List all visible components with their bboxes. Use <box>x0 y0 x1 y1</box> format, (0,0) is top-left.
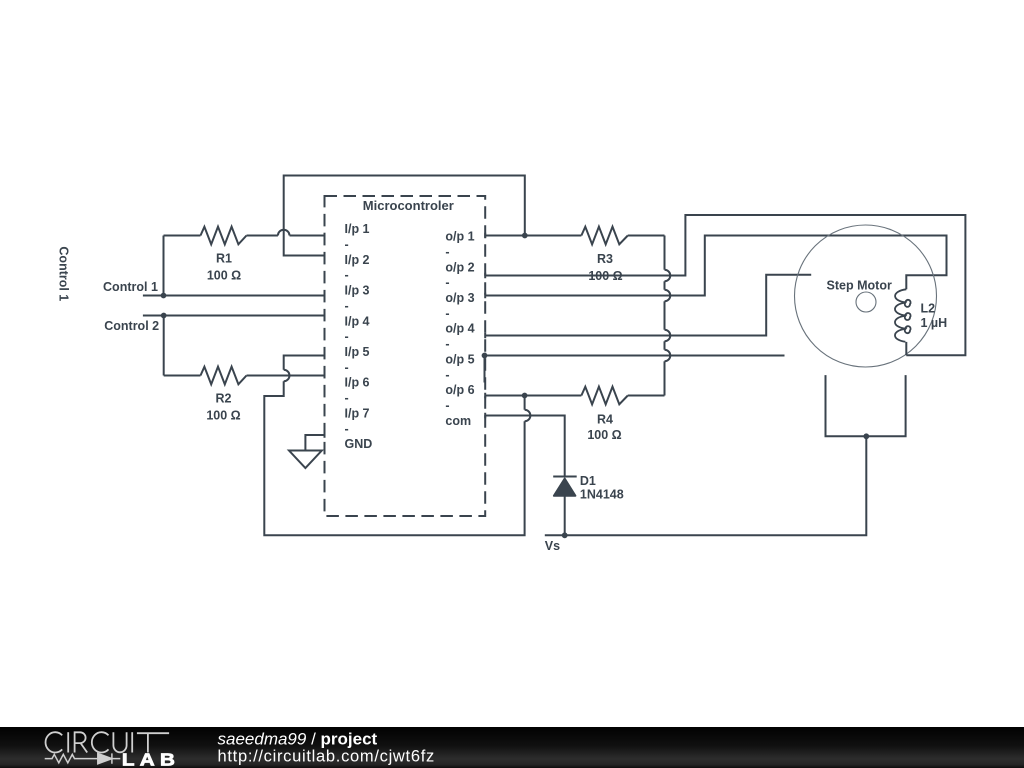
junction o/p1 <box>522 233 528 239</box>
svg-text:-: - <box>445 245 449 259</box>
svg-text:I/p 7: I/p 7 <box>345 406 370 420</box>
svg-text:LAB: LAB <box>122 751 180 768</box>
junction o/p5 <box>482 353 488 359</box>
net flag Control 2 <box>104 316 163 334</box>
svg-text:R2: R2 <box>216 392 232 406</box>
pin ticks left edge <box>324 233 326 438</box>
net flag Control 1 <box>103 280 163 296</box>
svg-text:Step Motor: Step Motor <box>827 278 892 292</box>
microcontroller U1 dashed box <box>325 196 486 516</box>
wire Control 2 down to R2 <box>163 316 165 376</box>
wire o/p5 stub down <box>484 356 486 383</box>
svg-text:-: - <box>445 276 449 290</box>
logo LAB <box>122 751 180 768</box>
svg-text:I/p 3: I/p 3 <box>345 284 370 298</box>
inductor L2 coil <box>895 289 947 355</box>
wire o/p2 to motor L2 bottom <box>485 215 965 355</box>
svg-text:1 µH: 1 µH <box>921 316 948 330</box>
wire I/p5 loop down to o/p6 <box>284 356 325 370</box>
wire o/p5 dangling <box>485 355 784 357</box>
resistor R3 <box>581 227 664 283</box>
svg-text:-: - <box>345 360 349 374</box>
junction Vs <box>562 532 568 538</box>
svg-text:I/p 5: I/p 5 <box>345 345 370 359</box>
svg-text:saeedma99 / project: saeedma99 / project <box>218 729 378 748</box>
junction motor bottom <box>863 433 869 439</box>
svg-text:I/p 6: I/p 6 <box>345 376 370 390</box>
svg-text:Control 1: Control 1 <box>103 280 158 294</box>
svg-text:GND: GND <box>345 437 373 451</box>
wire Control 1 to I/p3 <box>164 295 325 297</box>
wire o/p6 to R4 <box>485 395 581 397</box>
footer bar <box>0 727 1024 768</box>
pin ticks right edge <box>484 233 486 419</box>
svg-text:-: - <box>345 299 349 313</box>
svg-text:o/p 2: o/p 2 <box>445 260 474 274</box>
svg-text:D1: D1 <box>580 474 596 488</box>
svg-text:R1: R1 <box>216 252 232 266</box>
svg-text:100 Ω: 100 Ω <box>206 408 240 422</box>
svg-text:-: - <box>345 330 349 344</box>
wire Vs to motor bottom <box>565 436 867 535</box>
svg-text:-: - <box>345 391 349 405</box>
svg-text:R4: R4 <box>597 412 613 426</box>
wire Control 2 to I/p4 <box>164 315 325 317</box>
pin labels left column <box>345 222 373 451</box>
svg-text:I/p 4: I/p 4 <box>345 314 370 328</box>
wire right bus vertical with hops <box>664 236 666 270</box>
resistor R2 <box>164 367 325 423</box>
svg-text:-: - <box>445 337 449 351</box>
svg-text:R3: R3 <box>597 252 613 266</box>
wire o/p1 to R3 <box>485 235 581 237</box>
net flag Vs <box>545 535 565 553</box>
wire R1 left to Control 1 <box>163 236 165 296</box>
motor shaft circle <box>856 292 876 312</box>
resistor R1 <box>164 227 325 283</box>
ground symbol <box>289 435 325 468</box>
svg-text:Control 2: Control 2 <box>104 319 159 333</box>
svg-text:I/p 1: I/p 1 <box>345 222 370 236</box>
svg-text:-: - <box>445 368 449 382</box>
wire o/p3 to motor L2 top <box>485 236 946 296</box>
svg-text:com: com <box>445 414 471 428</box>
svg-text:-: - <box>345 422 349 436</box>
svg-text:Microcontroler: Microcontroler <box>363 198 454 213</box>
wire motor legs <box>826 375 906 436</box>
motor M1 body circle <box>795 225 937 367</box>
svg-text:I/p 2: I/p 2 <box>345 253 370 267</box>
svg-text:1N4148: 1N4148 <box>580 488 624 502</box>
diode D1 <box>553 474 624 536</box>
svg-text:100 Ω: 100 Ω <box>207 268 241 282</box>
svg-text:o/p 1: o/p 1 <box>445 230 474 244</box>
wire top loop I/p2 to o/p1 <box>284 176 525 256</box>
svg-text:100 Ω: 100 Ω <box>587 428 621 442</box>
svg-text:-: - <box>345 268 349 282</box>
svg-text:-: - <box>345 238 349 252</box>
wire com to D1 <box>485 416 565 477</box>
junction Control 2 <box>161 313 167 319</box>
svg-text:Vs: Vs <box>545 539 560 553</box>
wire o/p4 dangling into motor <box>485 275 811 336</box>
svg-text:o/p 6: o/p 6 <box>445 383 474 397</box>
svg-text:Control 1: Control 1 <box>56 246 70 301</box>
resistor R4 <box>581 387 664 442</box>
svg-text:-: - <box>445 399 449 413</box>
svg-text:http://circuitlab.com/cjwt6fz: http://circuitlab.com/cjwt6fz <box>218 748 435 766</box>
pin labels right column <box>445 230 474 428</box>
logo CIRCUIT outline letters <box>46 732 170 752</box>
svg-text:o/p 4: o/p 4 <box>445 322 474 336</box>
junction Control 1 <box>161 293 167 299</box>
svg-text:o/p 3: o/p 3 <box>445 291 474 305</box>
svg-text:o/p 5: o/p 5 <box>445 352 474 366</box>
junction o/p6 <box>522 393 528 399</box>
svg-text:L2: L2 <box>921 302 936 316</box>
logo resistor-diode glyph <box>45 753 121 763</box>
svg-text:-: - <box>445 306 449 320</box>
